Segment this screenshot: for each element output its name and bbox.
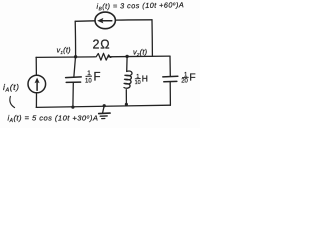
ground bar 2 (100, 115, 107, 117)
wire left branch lower (35, 93, 37, 108)
node v1 junction dot (74, 55, 77, 58)
wire inductor branch lower (125, 90, 127, 105)
ground bar 1 (99, 112, 110, 115)
iA arrow (36, 80, 38, 90)
svg-text:F: F (94, 72, 101, 84)
svg-text:20: 20 (181, 79, 188, 85)
svg-text:2Ω: 2Ω (93, 38, 111, 52)
current source iB circle (95, 12, 115, 29)
resistor 2ohm zigzag (94, 53, 112, 60)
svg-text:v1(t): v1(t) (57, 45, 72, 54)
wire right riser to node v2 (151, 20, 153, 56)
capacitor C1 top plate (66, 76, 82, 79)
wire mid rail left (node v1 to resistor) (36, 56, 94, 59)
svg-text:10: 10 (85, 79, 92, 85)
wire bottom rail (36, 105, 170, 107)
wire v1 riser (74, 21, 76, 57)
node v2 junction dot (125, 55, 128, 58)
wire mid rail right (resistor to node v2 to right corner) (108, 55, 170, 58)
iB arrow (100, 20, 112, 22)
iA arrowhead (35, 78, 40, 84)
capacitor C1 bottom plate (66, 81, 80, 83)
svg-text:iA(t) = 5 cos (10t +30o)A: iA(t) = 5 cos (10t +30o)A (8, 114, 99, 125)
wire top rail left (75, 20, 94, 23)
svg-text:iB(t) = 3 cos (10t +60o)A: iB(t) = 3 cos (10t +60o)A (96, 0, 184, 12)
svg-text:F: F (189, 72, 195, 84)
current source iA circle (28, 75, 46, 93)
svg-text:iA(t): iA(t) (3, 82, 20, 94)
wire top rail right (116, 19, 153, 21)
junction dot inductor bottom (125, 103, 128, 106)
junction dot C1 bottom (71, 106, 74, 109)
junction dot ground (103, 104, 106, 107)
svg-text:H: H (142, 73, 148, 83)
wire right branch lower (169, 82, 171, 105)
wire right branch upper (169, 56, 171, 76)
wire capacitor C1 branch upper (74, 57, 76, 77)
capacitor C2 bottom plate (164, 80, 177, 82)
wire inductor branch upper (126, 57, 128, 72)
inductor L coil (124, 71, 132, 88)
wire left branch upper (35, 57, 37, 75)
wire capacitor C1 branch lower (72, 83, 74, 108)
iB arrowhead (97, 18, 103, 24)
svg-text:v2(t): v2(t) (133, 48, 148, 57)
iA label pointer arc (10, 96, 15, 107)
ground stub (103, 106, 105, 113)
svg-text:10: 10 (135, 80, 141, 86)
ground bar 3 (102, 118, 105, 120)
capacitor C2 top plate (163, 75, 178, 78)
